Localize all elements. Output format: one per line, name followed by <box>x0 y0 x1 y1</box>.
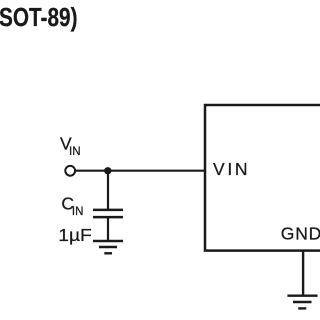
svg-text:1µF: 1µF <box>58 225 92 245</box>
wire: capacitor to ground <box>107 217 109 241</box>
junction dot <box>104 167 111 174</box>
label CIN <box>61 194 83 219</box>
wire: junction down to capacitor CIN <box>107 171 109 210</box>
svg-text:IN: IN <box>69 146 81 158</box>
wire: input terminal to VIN pin <box>76 170 205 172</box>
ground (right, below GND pin) <box>287 296 317 309</box>
node VIN label <box>60 134 81 158</box>
svg-text:VIN: VIN <box>213 159 248 179</box>
svg-text:SOT-89): SOT-89) <box>0 2 78 32</box>
op IC U1 (regulator box, clipped at right edge) <box>205 105 320 251</box>
input terminal (open circle) <box>65 166 75 176</box>
capacitor C1 (CIN) plates <box>93 210 123 217</box>
svg-text:GND: GND <box>281 223 320 243</box>
svg-text:IN: IN <box>72 206 84 218</box>
ground (left, below CIN) <box>93 241 123 253</box>
wire: GND pin down to ground <box>302 251 304 296</box>
